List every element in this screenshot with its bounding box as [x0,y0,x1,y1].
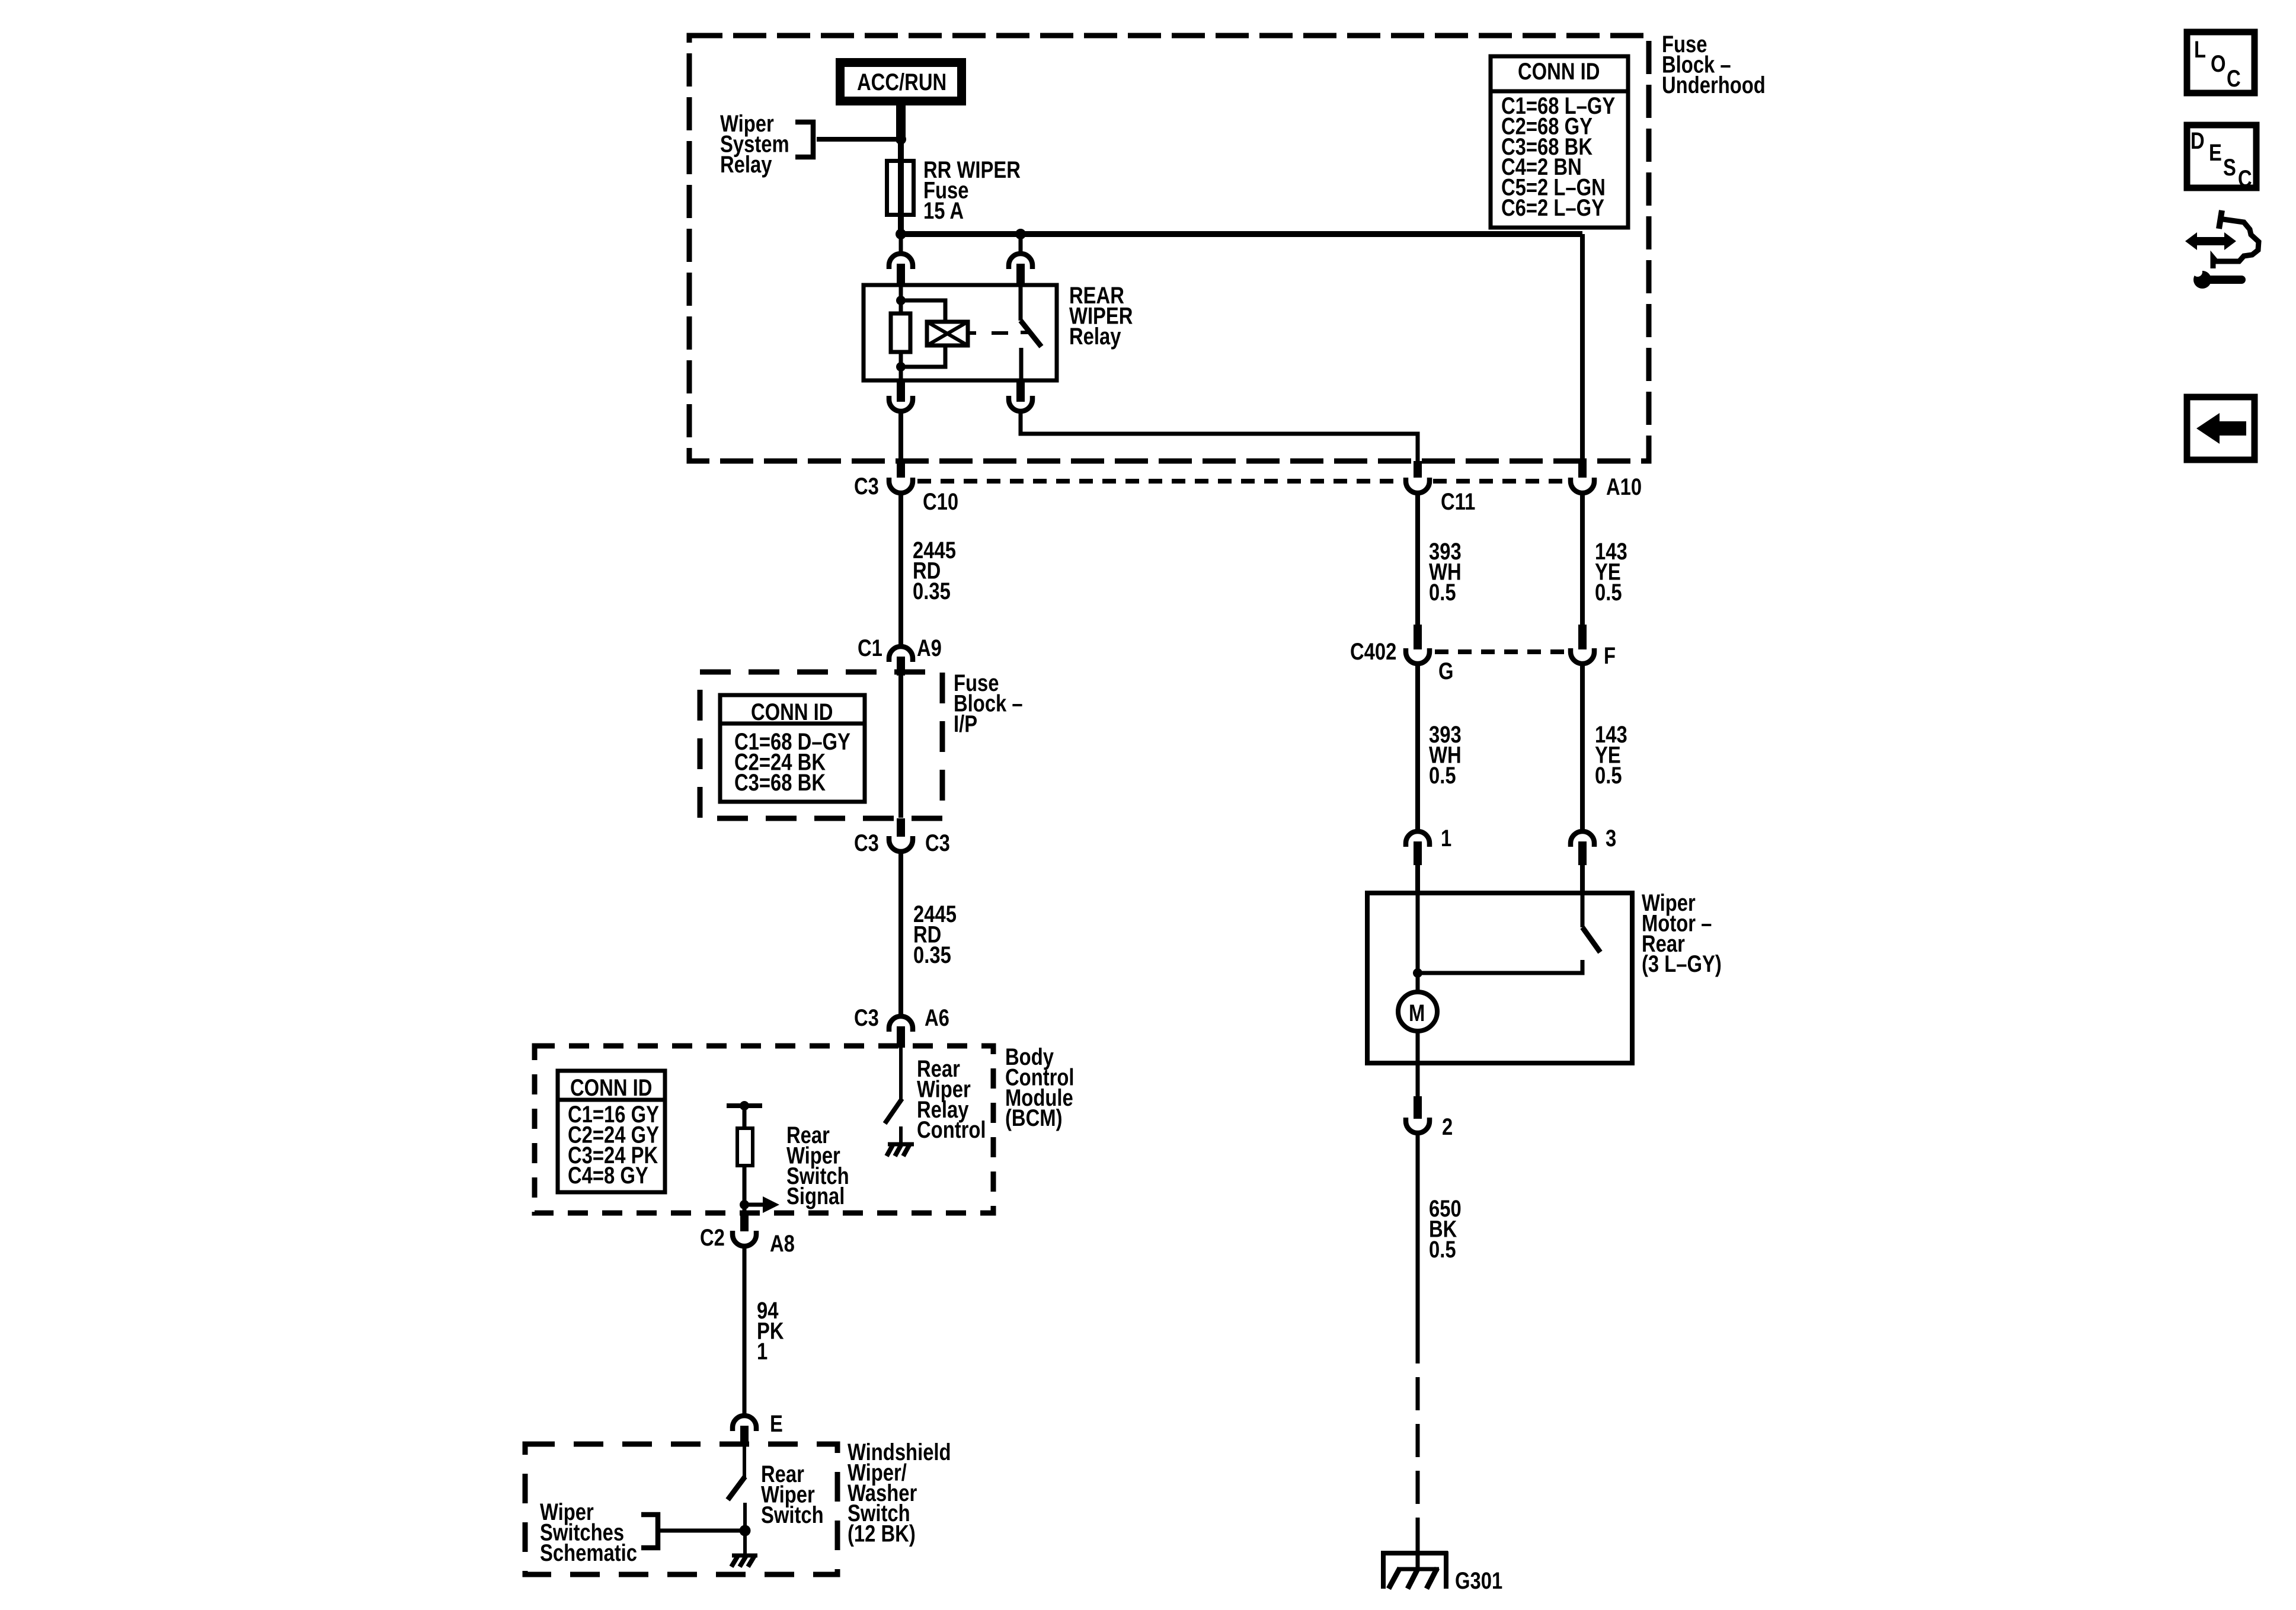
icon service tool [2185,210,2259,289]
wire to wiper system relay bracket [817,137,901,142]
node coil branch bottom [896,362,906,372]
svg-text:S: S [2223,154,2236,181]
signal arrow [744,1196,779,1213]
connector A10 [1571,473,1642,500]
connector female relay pin 86 [889,254,913,269]
svg-text:2: 2 [1442,1113,1453,1140]
svg-text:CONN ID: CONN ID [1518,58,1600,85]
wire 2445 RD segment 2 [898,853,903,1015]
wiper system relay reference bracket [795,122,813,157]
BCM dashed box [535,1046,993,1213]
wire 650 BK solid segment [1416,1134,1420,1330]
connector female below relay coil [889,396,913,411]
pin male stub into wiper washer switch [740,1426,749,1446]
wire 393 WH segment 2 [1415,665,1420,830]
label Wiper Motor Rear [1642,889,1722,977]
pin male stub out of fuse block IP [897,818,905,837]
svg-text:CONN ID: CONN ID [570,1074,652,1101]
connector motor pin 1 [1406,825,1451,852]
pin male stub C402 G [1414,625,1422,649]
connector C3 C10 [854,473,958,515]
pin male stub into relay switch [1016,264,1025,285]
wire relay switch branch drop [1019,234,1023,252]
wire relay coil top lead [899,285,903,315]
node switch ground junction [740,1525,751,1537]
svg-text:C: C [2238,165,2252,192]
node junction below fuse [896,229,906,239]
wire ACC/RUN feed drop [896,105,906,139]
wire 2445 RD segment 1 [898,494,903,645]
wire motor to pin 2 [1416,1031,1420,1097]
rear wiper switch lower contact [743,1503,747,1556]
label wire 393 WH 0.5 segment 2 [1429,721,1462,789]
svg-text:C3: C3 [854,830,879,856]
wire relay coil output down [898,414,903,465]
node rear wiper switch signal [740,1200,749,1209]
label wire 143 YE 0.5 segment 2 [1595,721,1627,789]
pin male stub motor pin 3 [1578,841,1587,865]
conn id table fuse block IP [720,695,865,802]
svg-text:C1=16 GYC2=24 GYC3=24 PKC4=8 G: C1=16 GYC2=24 GYC3=24 PKC4=8 GY [568,1101,659,1189]
icon DESC button [2187,125,2256,192]
wire relay switch output to C11 branch [1021,414,1418,463]
svg-text:E: E [770,1410,783,1437]
wire 143 YE segment 2 [1580,665,1585,830]
label Wiper Switches Schematic [540,1499,637,1566]
svg-text:D: D [2191,127,2205,154]
label Windshield Wiper Washer Switch 12 BK [848,1439,951,1547]
ground G301 [1381,1551,1502,1594]
fuse block underhood dashed box [689,36,1649,461]
pin male stub C402 F [1578,625,1587,649]
connector motor pin 2 [1406,1113,1453,1140]
relay switch lower contact [1019,348,1024,380]
wire into motor box pin1 [1415,865,1420,895]
connector C3 A6 [854,1004,949,1032]
label wire 2445 RD 0.35 segment 2 [913,901,957,968]
connector E [733,1410,783,1437]
wire coil actuator lead [968,331,976,335]
conn id table fuse block underhood [1491,56,1628,228]
connector C1 A9 [858,635,942,662]
node junction at relay switch branch [1015,229,1026,239]
node motor park contact junction [1413,968,1422,978]
wire 650 BK dashed segment [1416,1330,1420,1569]
wiper switches schematic reference bracket [641,1515,658,1548]
svg-text:L: L [2194,36,2206,63]
icon LOC button [2187,32,2255,93]
BCM internal node bar [727,1101,762,1110]
svg-text:O: O [2211,50,2226,77]
svg-text:C3: C3 [854,473,879,500]
svg-text:C2: C2 [700,1224,725,1251]
svg-text:A8: A8 [770,1230,795,1257]
pin male stub C11 [1414,461,1422,478]
pin male stub into relay coil [897,264,905,285]
label REAR WIPER Relay [1069,282,1133,350]
pin male stub below relay switch [1016,380,1025,402]
wire through fuse block IP [898,674,903,818]
pin male stub C3 underhood [897,462,905,478]
pin male stub A10 [1578,461,1587,478]
label wire 94 PK 1 [757,1297,784,1365]
connector C402 G [1350,638,1454,684]
wire to BCM resistor [743,1106,747,1129]
pin male stub below relay coil [897,380,905,402]
windshield wiper washer switch dashed box [525,1444,837,1574]
page boundary dotted line [917,479,1569,484]
svg-text:C3: C3 [854,1004,879,1031]
connector female below relay switch [1009,396,1032,411]
label wire 650 BK 0.5 [1429,1195,1462,1263]
pin male stub motor pin 1 [1414,841,1422,865]
wiper motor rear box [1367,893,1632,1063]
wire motor park contact horizontal [1418,960,1582,973]
motor switch blade [1582,927,1600,952]
svg-text:3: 3 [1606,825,1616,852]
motor switch fixed contact [1581,893,1585,927]
wire 393 WH segment 1 [1415,494,1420,625]
svg-text:F: F [1604,642,1616,669]
label Wiper System Relay [720,110,789,178]
connector motor pin 3 [1571,825,1616,852]
label RR WIPER Fuse 15 A [923,156,1021,224]
conn id table BCM [558,1071,665,1192]
svg-text:1: 1 [1441,825,1451,852]
wire actuator dashed link [992,331,1008,335]
pin male stub out of BCM [740,1214,749,1231]
relay REAR WIPER box [864,285,1057,380]
label Rear Wiper Relay Control [917,1055,986,1143]
connector C11 [1406,478,1475,515]
wire 94 PK [743,1247,747,1414]
svg-text:C402: C402 [1350,638,1396,665]
wire to wiper switches schematic bracket [660,1529,745,1533]
relay switch fixed contact [1019,285,1023,321]
icon back arrow button [2187,397,2255,460]
svg-text:A10: A10 [1606,473,1642,500]
svg-text:CONN ID: CONN ID [751,699,833,725]
wire switch hinge stub [1021,331,1028,334]
wire resistor to signal node [743,1166,747,1214]
wire into motor box pin3 [1580,865,1585,895]
svg-text:A6: A6 [925,1004,949,1031]
svg-text:C10: C10 [923,488,958,515]
label Fuse Block Underhood [1662,31,1766,98]
svg-text:C1: C1 [858,635,882,661]
label Rear Wiper Switch Signal [786,1122,849,1209]
svg-text:M: M [1409,1000,1425,1026]
fuse block IP dashed box [700,672,942,818]
svg-text:G301: G301 [1455,1567,1502,1594]
wire inline connector dashed link C402 [1435,649,1566,654]
wire 143 YE segment 1 [1580,494,1585,625]
wire A10 branch vertical [1580,234,1585,465]
label Rear Wiper Switch [761,1461,824,1528]
BCM rear wiper relay control switch [885,1048,902,1124]
ground wiper switch internal [731,1555,757,1567]
connector C2 A8 [700,1224,795,1257]
label Fuse Block IP [954,670,1023,737]
svg-text:G: G [1438,658,1454,684]
svg-text:C11: C11 [1441,488,1475,515]
wire horizontal feed to A10 branch [901,231,1582,237]
resistor relay internal [891,313,910,352]
pin male stub motor pin 2 [1414,1096,1422,1119]
label Body Control Module BCM [1005,1044,1075,1131]
wire coil branch bottom [901,344,945,367]
node coil branch top [896,296,906,305]
svg-text:C3: C3 [925,830,950,856]
fuse RR WIPER 15A [887,161,914,215]
pin male stub into fuse block IP [897,657,905,676]
ground BCM internal [887,1126,914,1156]
connector C3 C3 [854,830,950,856]
relay switch blade [1021,321,1041,347]
svg-text:A9: A9 [917,635,942,661]
wire coil branch top [901,300,945,323]
node junction at wiper system relay tap [896,134,906,145]
rear wiper switch blade [728,1446,745,1500]
svg-text:ACC/RUN: ACC/RUN [857,69,946,95]
svg-text:C: C [2227,65,2241,92]
label wire 143 YE 0.5 segment 1 [1595,538,1627,606]
connector female relay pin 30 [1009,254,1032,269]
label wire 393 WH 0.5 segment 1 [1429,538,1462,606]
motor M element [1398,992,1437,1031]
relay coil element [927,322,968,345]
resistor BCM pull-up [737,1128,753,1166]
svg-text:E: E [2209,139,2222,166]
wire relay coil bottom lead [899,351,903,380]
label wire 2445 RD 0.35 segment 1 [913,537,956,604]
pin male stub into BCM [897,1026,905,1048]
power symbol ACC/RUN [840,63,962,101]
connector C402 F [1571,642,1616,669]
wire motor internal left [1416,893,1420,993]
wire main feed through fuse [898,139,904,252]
